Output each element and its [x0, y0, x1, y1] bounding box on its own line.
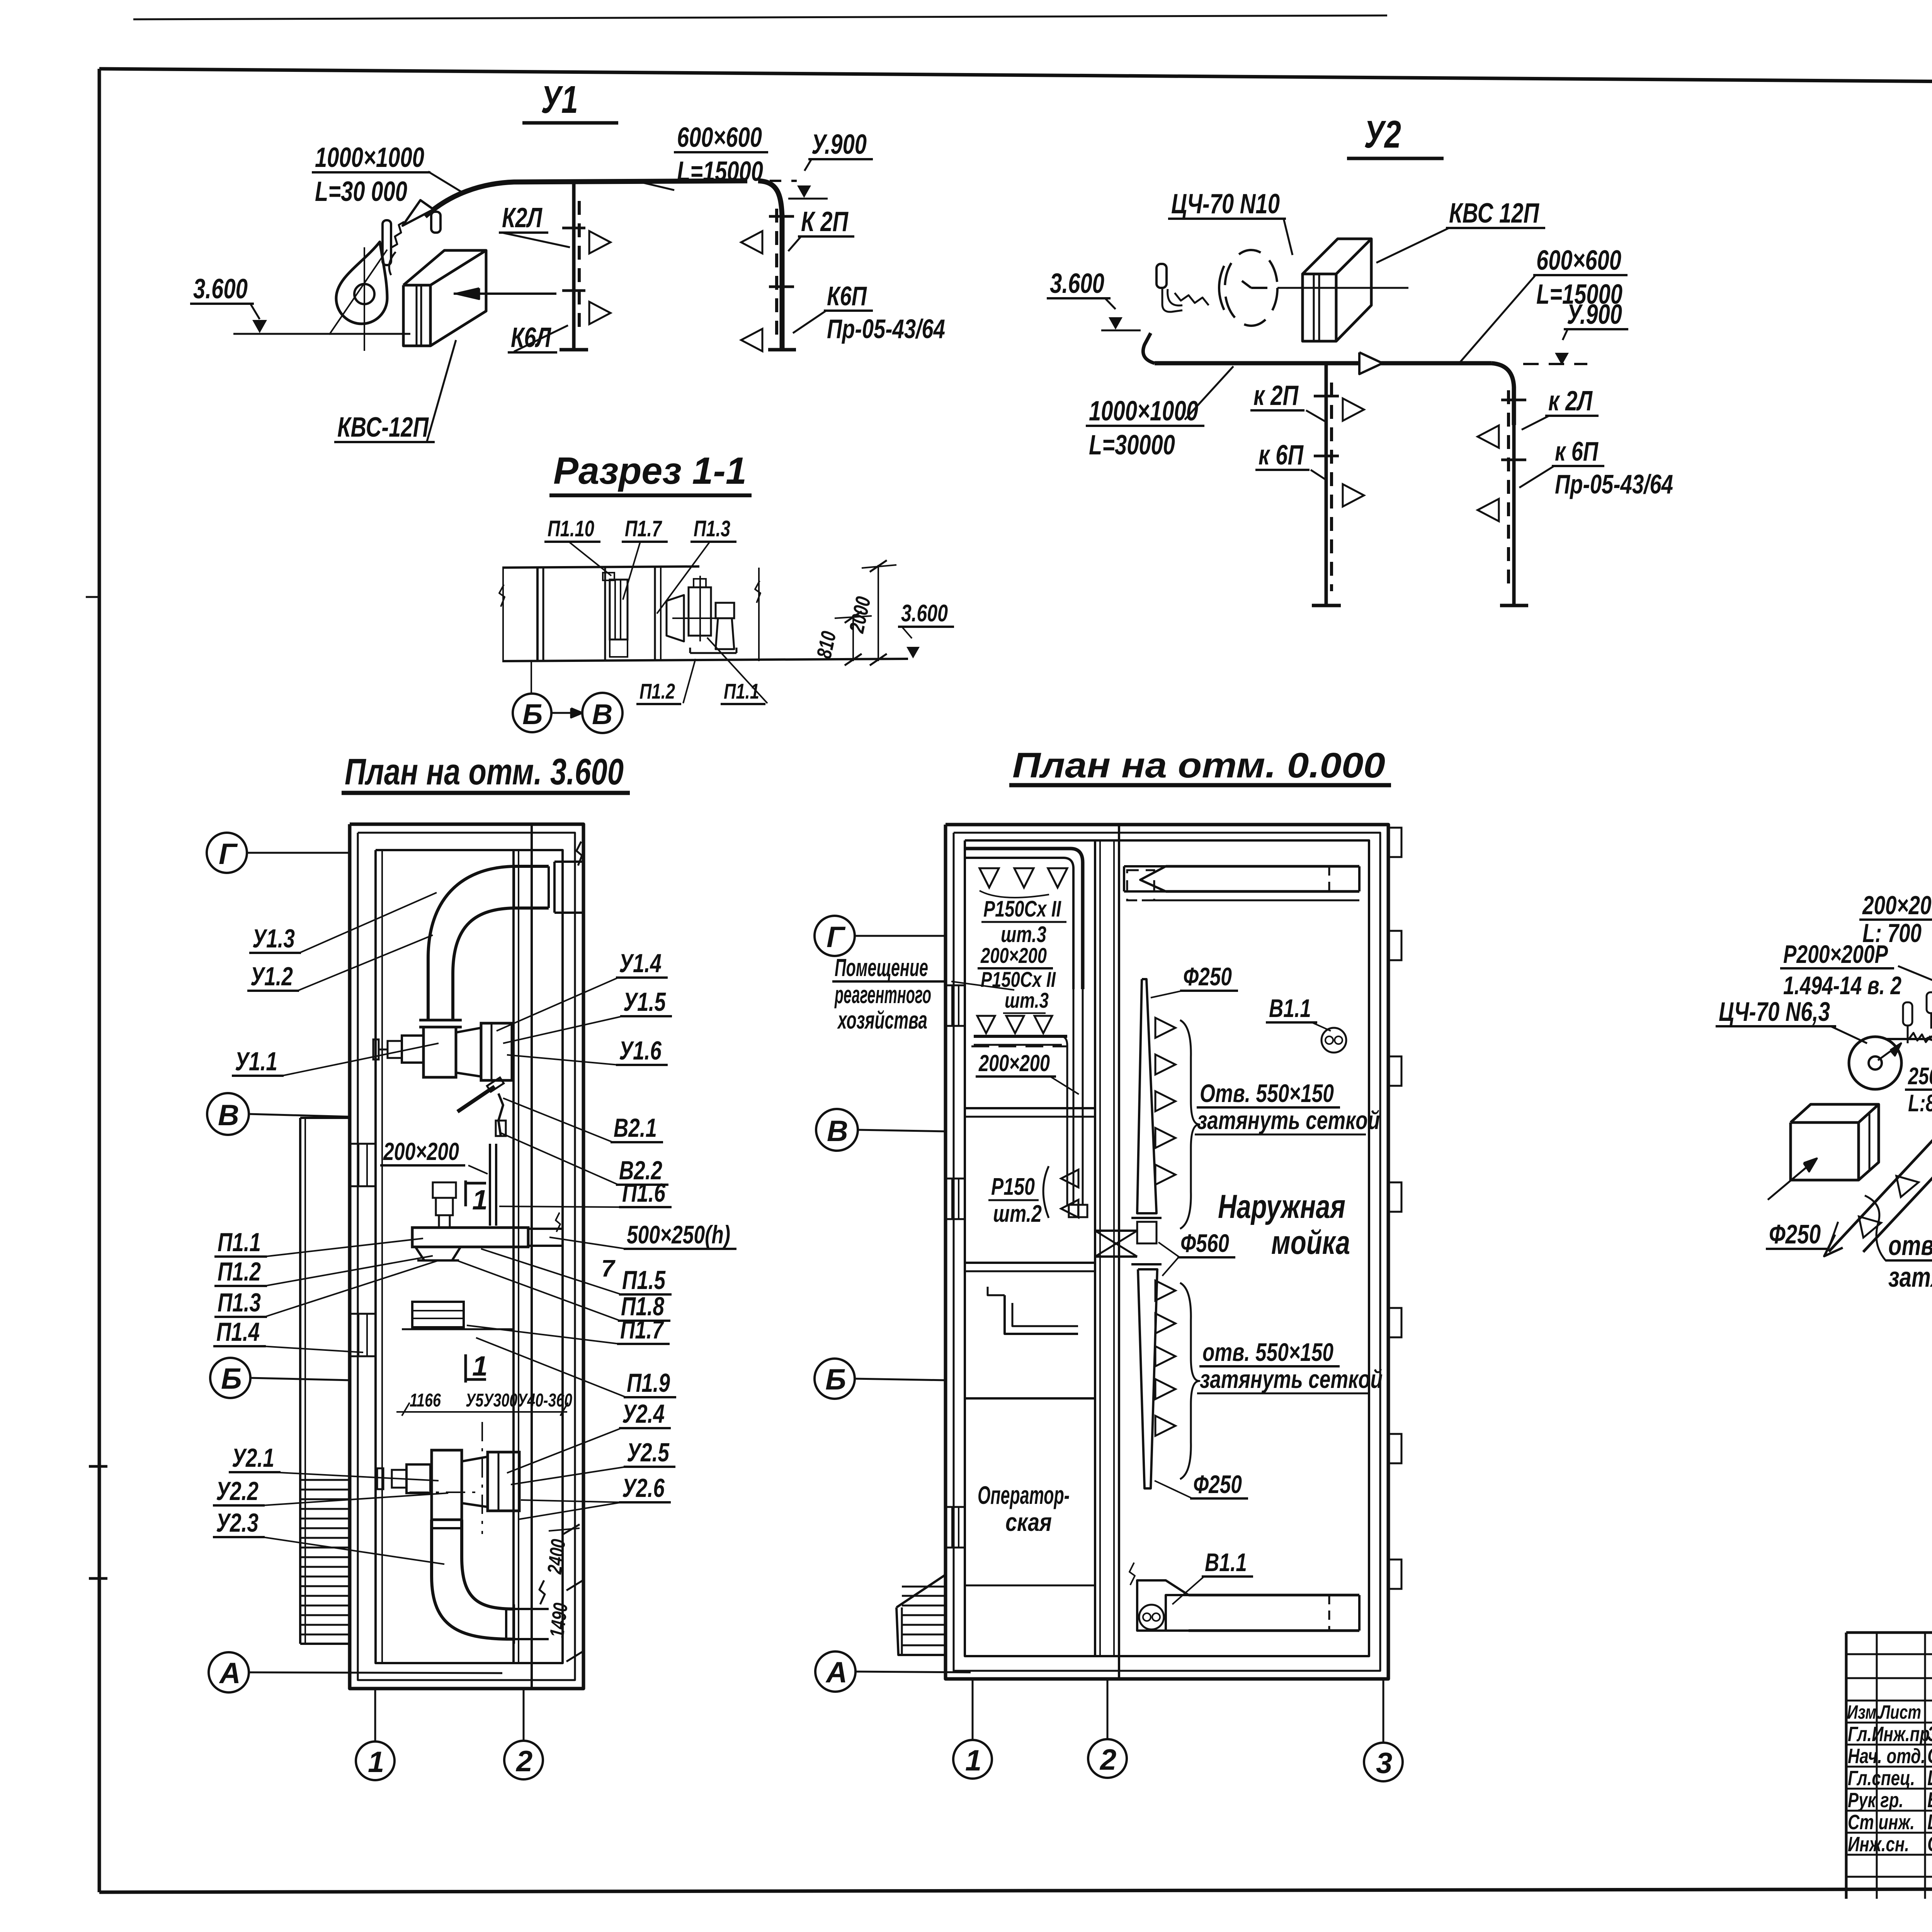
svg-text:1000×1000: 1000×1000 [1089, 396, 1198, 427]
svg-text:У.900: У.900 [1567, 299, 1622, 330]
svg-text:Б: Б [825, 1363, 846, 1396]
grid bubbles Б В section [513, 694, 551, 732]
У2 elbow down [432, 1520, 514, 1639]
svg-text:3.600: 3.600 [901, 600, 948, 627]
svg-text:Инж.сн.: Инж.сн. [1848, 1833, 1909, 1856]
svg-text:П1.2: П1.2 [639, 679, 675, 703]
svg-text:7: 7 [601, 1255, 616, 1282]
plan 3600 left annex wall [299, 1118, 301, 1644]
svg-text:У.900: У.900 [811, 129, 867, 160]
svg-text:2: 2 [515, 1745, 532, 1778]
svg-text:Рук гр.: Рук гр. [1848, 1789, 1903, 1812]
section cut mark lower [464, 1354, 467, 1383]
svg-text:Ст инж.: Ст инж. [1848, 1811, 1915, 1834]
plan 3600 outer walls [350, 824, 583, 1689]
svg-text:У1.3: У1.3 [252, 924, 295, 953]
svg-text:1490: 1490 [546, 1602, 572, 1639]
grid bubbles plan0000 [815, 916, 855, 956]
svg-text:В: В [592, 698, 612, 730]
svg-text:Осипов: Осипов [1927, 1743, 1932, 1768]
svg-text:хозяйства: хозяйства [837, 1006, 927, 1034]
svg-text:П1.10: П1.10 [548, 516, 594, 541]
section dim 2000 [878, 565, 879, 661]
П1 fan [1849, 1037, 1901, 1089]
svg-text:В: В [827, 1115, 848, 1148]
svg-text:затянуть сеткой: затянуть сеткой [1197, 1106, 1380, 1134]
svg-text:Оператор-: Оператор- [978, 1481, 1070, 1509]
triangles right riser У1 [741, 231, 762, 253]
rotated dims 2400 1490 [543, 1538, 570, 1575]
svg-text:К6П: К6П [827, 281, 867, 311]
duct У2 main [1143, 333, 1155, 363]
riser К2Л К6Л [572, 182, 576, 350]
dim line 2400/1490 plan3600 [574, 1529, 576, 1658]
svg-text:1000×1000: 1000×1000 [315, 142, 424, 173]
svg-text:Гл.спец.: Гл.спец. [1848, 1767, 1915, 1790]
svg-text:В1.1: В1.1 [1269, 994, 1311, 1022]
svg-text:к 2П: к 2П [1253, 380, 1299, 411]
svg-text:У2.2: У2.2 [216, 1476, 259, 1506]
svg-text:затянуть сеткой: затянуть сеткой [1888, 1262, 1932, 1293]
svg-text:отв. 550×150: отв. 550×150 [1888, 1230, 1932, 1261]
plan 0000 left wall windows [946, 985, 965, 1026]
У1 motor plan [402, 1036, 423, 1063]
svg-text:Ф250: Ф250 [1193, 1470, 1242, 1498]
svg-text:Бауман: Бауман [1927, 1787, 1932, 1812]
svg-text:Б: Б [221, 1362, 242, 1395]
section dim ext line [758, 568, 760, 661]
svg-text:П1.4: П1.4 [216, 1317, 260, 1347]
svg-text:В: В [218, 1099, 239, 1132]
svg-text:У1.4: У1.4 [619, 949, 662, 978]
svg-text:L:8000: L:8000 [1908, 1090, 1932, 1117]
stairs hatch plan3600 [301, 1479, 349, 1481]
reagent triangles row [980, 868, 999, 888]
svg-text:У1: У1 [541, 78, 578, 121]
П1 fan axis [1886, 1038, 1932, 1040]
svg-text:В2.1: В2.1 [614, 1113, 657, 1143]
svg-text:к 6П: к 6П [1259, 440, 1304, 471]
upper triangles hall [1155, 1018, 1175, 1038]
fan-box axis У2 [1277, 287, 1408, 289]
svg-text:шт.3: шт.3 [1005, 988, 1049, 1012]
svg-text:Смелянская: Смелянская [1927, 1832, 1932, 1856]
svg-text:Разрез 1-1: Разрез 1-1 [553, 449, 747, 492]
svg-text:3: 3 [1376, 1747, 1392, 1780]
section bottom line [502, 659, 908, 661]
svg-text:А: А [219, 1657, 241, 1690]
plan 0000 outer walls [946, 825, 1388, 1679]
bottom duct hall [1189, 1594, 1359, 1597]
svg-text:ЦЧ-70 N10: ЦЧ-70 N10 [1171, 189, 1280, 219]
svg-text:Пр-05-43/64: Пр-05-43/64 [827, 314, 945, 344]
upper cone duct [1137, 979, 1156, 1213]
svg-text:реагентного: реагентного [834, 981, 931, 1009]
svg-text:П1.3: П1.3 [694, 516, 730, 541]
svg-text:Ф560: Ф560 [1180, 1229, 1229, 1257]
svg-text:Лист: Лист [1879, 1701, 1921, 1723]
П1 duct end arrows [1824, 1235, 1843, 1256]
svg-text:3.600: 3.600 [193, 274, 248, 304]
duct У1 inlet arrow [403, 200, 434, 226]
svg-text:1.494-14 в. 2: 1.494-14 в. 2 [1783, 971, 1901, 1000]
svg-text:К2Л: К2Л [502, 202, 543, 233]
second duct corner down [1062, 1036, 1067, 1206]
svg-text:Нач. отд.: Нач. отд. [1848, 1745, 1925, 1768]
svg-text:200×200: 200×200 [1862, 891, 1932, 920]
section filter stack [604, 568, 606, 661]
svg-text:200×200: 200×200 [978, 1050, 1050, 1076]
cone mid flange [1131, 1217, 1162, 1219]
svg-text:1: 1 [368, 1746, 384, 1779]
svg-text:Р150Сх II: Р150Сх II [983, 896, 1061, 922]
centerline У2 plan [481, 1422, 483, 1534]
svg-text:В1.1: В1.1 [1205, 1548, 1247, 1577]
svg-text:Помещение: Помещение [835, 954, 928, 981]
lower cone duct [1138, 1269, 1157, 1488]
stamp signature table [1845, 1633, 1848, 1899]
svg-text:Г: Г [827, 921, 846, 954]
svg-text:П1.1: П1.1 [724, 679, 759, 703]
border frame [99, 69, 1932, 87]
svg-text:2: 2 [1099, 1743, 1116, 1776]
У2 assembly plan3600 [432, 1450, 462, 1520]
svg-text:шт.2: шт.2 [993, 1201, 1042, 1227]
svg-text:У2: У2 [1364, 113, 1401, 156]
svg-text:ская: ская [1005, 1508, 1052, 1536]
svg-text:У2.5: У2.5 [627, 1438, 670, 1467]
section fan unit П1.1 [667, 595, 684, 641]
left rooms dividers [965, 1107, 1095, 1109]
Ф560 stub [1095, 1230, 1137, 1232]
svg-text:Г: Г [219, 838, 238, 871]
svg-text:КВС 12П: КВС 12П [1449, 198, 1540, 229]
У1 elbow assembly [428, 866, 549, 1020]
brace triangles Р150шт2 [1043, 1166, 1049, 1218]
svg-text:У1.6: У1.6 [619, 1036, 662, 1065]
svg-text:к 6П: к 6П [1555, 436, 1599, 466]
fan У1 volute [336, 242, 387, 324]
reagent room duct [966, 849, 1083, 989]
fan У2 dashed circle [1225, 250, 1277, 326]
svg-text:Шехтер: Шехтер [1927, 1810, 1932, 1834]
right riser У2 [1512, 425, 1516, 605]
svg-text:250×500: 250×500 [1908, 1063, 1932, 1090]
svg-text:1: 1 [472, 1351, 488, 1382]
svg-text:L=30000: L=30000 [1089, 430, 1175, 461]
stairs plan0000 outside wall [896, 1575, 945, 1655]
plan 3600 inner wall [512, 850, 515, 1663]
plan 3600 window piers left [350, 1144, 376, 1186]
section left dim line [502, 568, 504, 661]
svg-text:к 2Л: к 2Л [1548, 386, 1593, 417]
svg-text:Отв. 550×150: Отв. 550×150 [1200, 1079, 1334, 1107]
svg-text:У1.2: У1.2 [250, 962, 293, 991]
svg-text:У2.1: У2.1 [232, 1443, 274, 1473]
svg-text:КВС-12П: КВС-12П [337, 412, 429, 443]
section dim 810 [852, 617, 854, 661]
filter box КВС-12П У1 [403, 285, 430, 346]
svg-text:План на отм. 0.000: План на отм. 0.000 [1012, 746, 1385, 785]
dashed door line reagent room [971, 1046, 1066, 1048]
svg-text:План на отм. 3.600: План на отм. 3.600 [345, 751, 624, 793]
fan У1 axis line [454, 293, 556, 295]
П1 assembly plan3600 [412, 1228, 528, 1247]
svg-text:600×600: 600×600 [1536, 245, 1621, 276]
svg-text:Шаровский: Шаровский [1927, 1765, 1932, 1790]
plan 0000 right piers [1388, 828, 1401, 857]
svg-text:П1.2: П1.2 [218, 1257, 261, 1286]
fold tick marks [89, 1465, 107, 1468]
left riser У2 [1325, 363, 1328, 605]
П1 arrow into box [1768, 1159, 1816, 1200]
П1 duct triangles [1859, 1212, 1883, 1238]
grid bubbles plan3600 [207, 833, 247, 873]
svg-text:Изм.: Изм. [1847, 1701, 1881, 1723]
duct У1 main [425, 181, 747, 216]
У1 fan box plan [423, 1027, 456, 1077]
svg-text:1: 1 [965, 1744, 981, 1777]
svg-text:3.600: 3.600 [1050, 268, 1104, 299]
svg-text:1166: 1166 [410, 1390, 441, 1411]
svg-text:Ф250: Ф250 [1769, 1219, 1821, 1249]
section cut mark upper [464, 1180, 467, 1206]
svg-text:Р200×200Р: Р200×200Р [1783, 940, 1888, 968]
svg-text:У2.6: У2.6 [622, 1473, 665, 1503]
П1 flexible connector [1909, 1033, 1930, 1042]
svg-text:П1.5: П1.5 [622, 1265, 666, 1295]
reagent lower duct [977, 1016, 995, 1033]
svg-text:1: 1 [472, 1185, 488, 1216]
svg-text:К6Л: К6Л [511, 322, 551, 353]
svg-text:Закраничский: Закраничский [1927, 1721, 1932, 1746]
svg-text:Р150: Р150 [991, 1173, 1035, 1200]
П1 box 3D [1791, 1122, 1859, 1180]
duct 200x200 plan3600 [489, 1144, 491, 1226]
svg-text:500×250(h): 500×250(h) [627, 1220, 730, 1249]
svg-text:П1.7: П1.7 [625, 516, 662, 541]
section top line [502, 566, 699, 568]
svg-text:мойка: мойка [1271, 1224, 1350, 1261]
svg-text:К 2П: К 2П [801, 206, 849, 237]
svg-text:затянуть сеткой: затянуть сеткой [1200, 1365, 1383, 1393]
svg-text:Наружная: Наружная [1218, 1188, 1345, 1225]
svg-text:Ф250: Ф250 [1183, 962, 1232, 991]
svg-text:2400: 2400 [543, 1538, 570, 1575]
svg-text:Пр-05-43/64: Пр-05-43/64 [1555, 469, 1673, 499]
svg-text:Б: Б [522, 698, 543, 730]
lower triangles hall [1155, 1281, 1175, 1301]
svg-text:отв. 550×150: отв. 550×150 [1202, 1338, 1333, 1366]
flexible connector У1 [383, 220, 391, 265]
svg-text:200×200: 200×200 [980, 943, 1047, 968]
П1.7 heater box plan [412, 1302, 464, 1327]
flexible connector У2 [1175, 293, 1209, 305]
paper top edge artifact [133, 15, 1387, 19]
svg-text:ЦЧ-70 N6,3: ЦЧ-70 N6,3 [1719, 997, 1830, 1027]
svg-text:У5У300У40-360: У5У300У40-360 [466, 1390, 572, 1411]
duct arrow У2 [1359, 352, 1383, 374]
svg-text:П1.9: П1.9 [627, 1368, 670, 1398]
svg-text:У2.3: У2.3 [216, 1508, 259, 1537]
В2 equipment plan3600 [457, 1087, 495, 1112]
section mid wall [654, 568, 656, 661]
У1 transition plan [456, 1028, 481, 1077]
У1 flange plan [419, 1019, 462, 1022]
svg-text:П1.3: П1.3 [218, 1288, 261, 1317]
section left wall [536, 568, 539, 661]
triangles riser mid У1 [589, 231, 611, 253]
svg-text:А: А [825, 1656, 847, 1689]
svg-text:600×600: 600×600 [677, 122, 762, 153]
svg-text:У1.1: У1.1 [235, 1047, 277, 1076]
plan 0000 inner wall [1094, 840, 1096, 1656]
L-wall detail [1005, 1295, 1078, 1334]
top duct hall [1166, 865, 1359, 868]
svg-text:П1.1: П1.1 [218, 1228, 261, 1257]
П1 duct lower segment [1829, 1066, 1932, 1252]
svg-text:L=30 000: L=30 000 [315, 176, 407, 207]
svg-text:У2.4: У2.4 [622, 1399, 665, 1429]
svg-text:П1.6: П1.6 [622, 1178, 666, 1207]
svg-text:П1.7: П1.7 [620, 1315, 664, 1344]
svg-text:У1.5: У1.5 [623, 987, 666, 1017]
svg-text:200×200: 200×200 [383, 1138, 459, 1165]
box КВС12П У2 [1303, 274, 1336, 341]
riser К2П К6П У1 [775, 209, 778, 335]
svg-text:Гл.Инж.пр: Гл.Инж.пр [1848, 1723, 1930, 1746]
svg-text:L=15000: L=15000 [677, 156, 763, 187]
